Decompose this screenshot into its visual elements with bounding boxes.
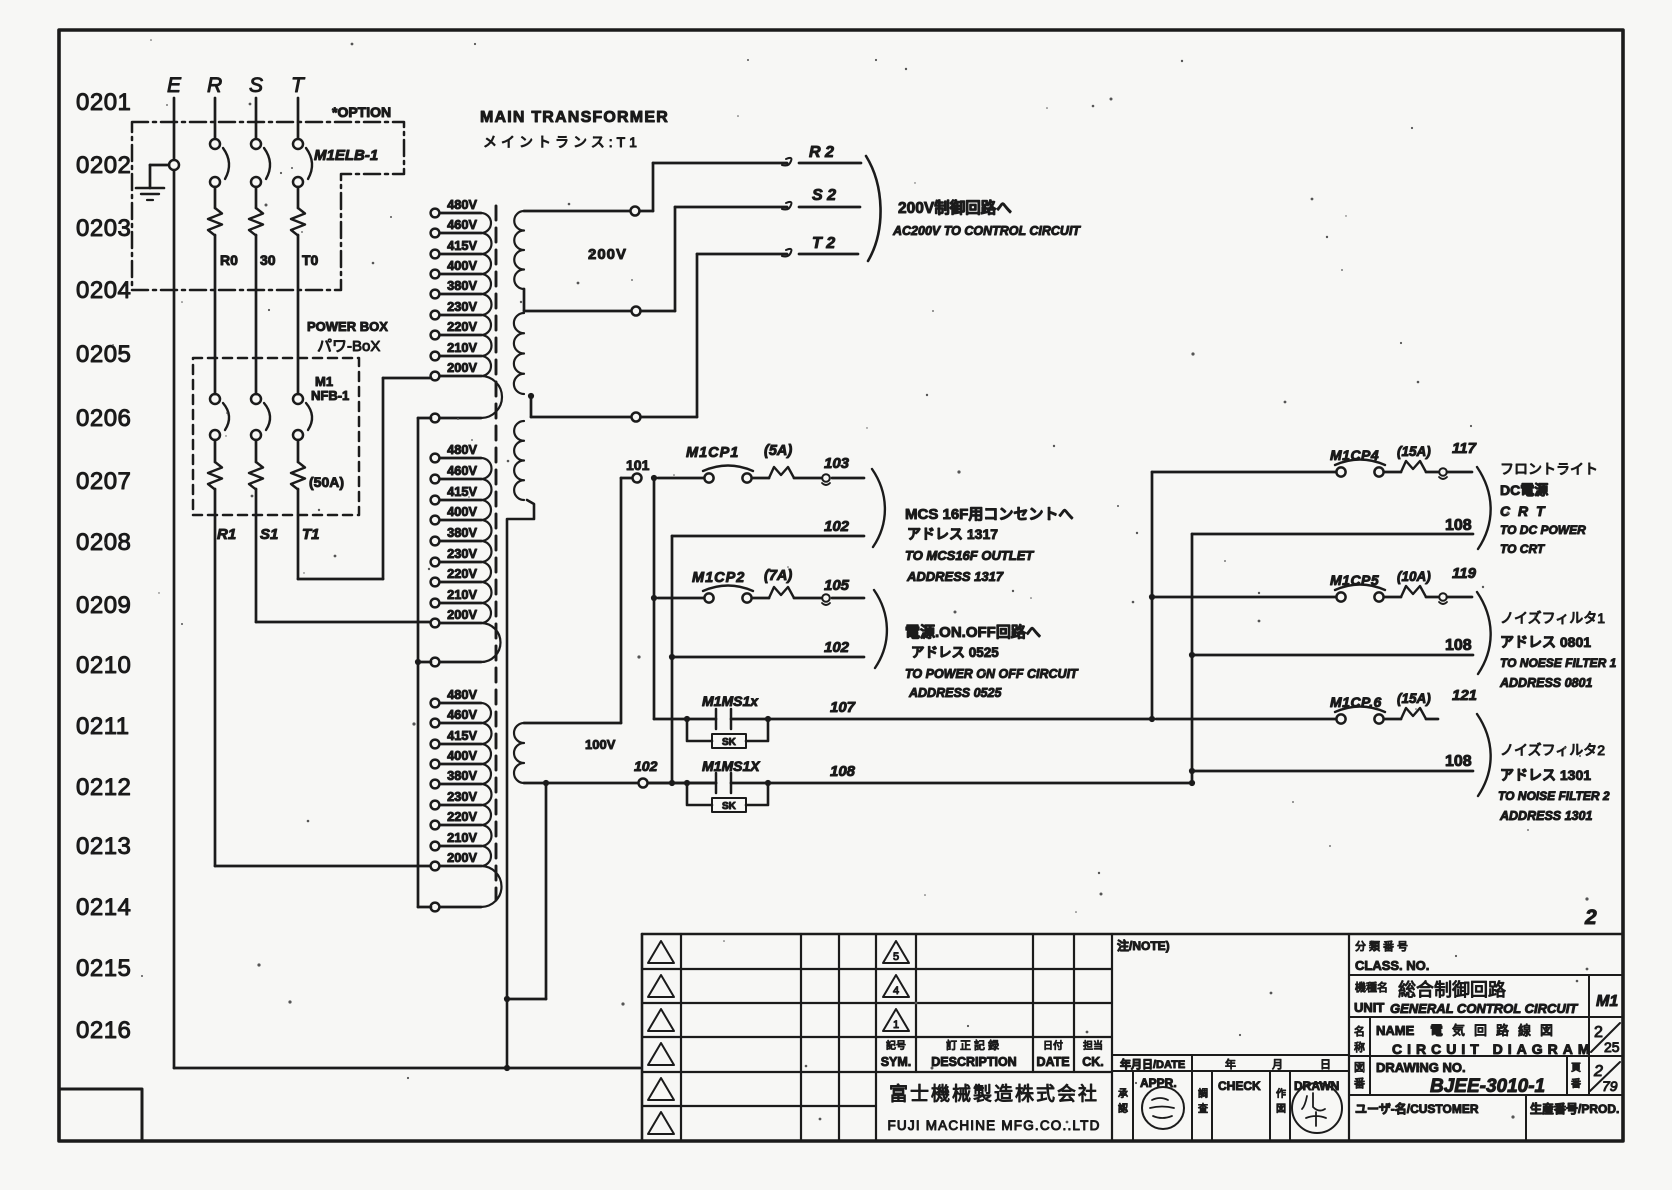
svg-text:CLASS. NO.: CLASS. NO. bbox=[1355, 958, 1429, 973]
svg-text:分類番号: 分類番号 bbox=[1355, 940, 1411, 953]
svg-text:TO POWER ON OFF CIRCUIT: TO POWER ON OFF CIRCUIT bbox=[905, 667, 1079, 681]
svg-text:107: 107 bbox=[830, 699, 856, 716]
svg-text:(50A): (50A) bbox=[309, 474, 344, 490]
svg-text:102: 102 bbox=[634, 758, 658, 774]
svg-text:TO CRT: TO CRT bbox=[1500, 542, 1546, 556]
svg-text:ADDRESS 0525: ADDRESS 0525 bbox=[908, 686, 1002, 700]
svg-text:DESCRIPTION: DESCRIPTION bbox=[931, 1055, 1016, 1069]
svg-text:ノイズフィルタ2: ノイズフィルタ2 bbox=[1500, 742, 1605, 758]
svg-text:BJEE-3010-1: BJEE-3010-1 bbox=[1430, 1076, 1545, 1097]
svg-text:年月日/DATE: 年月日/DATE bbox=[1120, 1057, 1185, 1071]
svg-text:MCS 16F用コンセントへ: MCS 16F用コンセントへ bbox=[905, 506, 1073, 523]
svg-text:2: 2 bbox=[1584, 906, 1597, 929]
svg-text:M1CP.6: M1CP.6 bbox=[1330, 694, 1382, 710]
svg-text:NFB-1: NFB-1 bbox=[311, 388, 349, 403]
svg-text:TO NOISE FILTER 2: TO NOISE FILTER 2 bbox=[1498, 789, 1610, 803]
svg-text:DRAWING NO.: DRAWING NO. bbox=[1376, 1060, 1466, 1075]
svg-text:210V: 210V bbox=[447, 340, 477, 355]
svg-text:1: 1 bbox=[893, 1019, 899, 1031]
svg-text:220V: 220V bbox=[447, 809, 477, 824]
svg-text:メイントランス:T1: メイントランス:T1 bbox=[483, 134, 641, 150]
svg-text:200V: 200V bbox=[447, 360, 477, 375]
svg-text:480V: 480V bbox=[447, 687, 477, 702]
svg-text:アドレス 1301: アドレス 1301 bbox=[1500, 767, 1591, 783]
svg-text:図: 図 bbox=[1354, 1061, 1365, 1074]
svg-text:日付: 日付 bbox=[1043, 1039, 1063, 1052]
svg-text:T: T bbox=[291, 74, 306, 97]
svg-text:(10A): (10A) bbox=[1397, 569, 1431, 584]
svg-text:SYM.: SYM. bbox=[881, 1055, 912, 1069]
svg-text:番: 番 bbox=[1571, 1078, 1581, 1090]
svg-text:月: 月 bbox=[1272, 1059, 1283, 1071]
svg-text:210V: 210V bbox=[447, 587, 477, 602]
svg-text:CK.: CK. bbox=[1082, 1055, 1104, 1069]
svg-text:100V: 100V bbox=[585, 737, 616, 752]
svg-text:2: 2 bbox=[1594, 1024, 1603, 1041]
svg-text:4: 4 bbox=[893, 985, 899, 997]
svg-text:DATE: DATE bbox=[1036, 1055, 1069, 1069]
svg-text:108: 108 bbox=[1445, 753, 1472, 770]
svg-text:CIRCUIT DIAGRAM: CIRCUIT DIAGRAM bbox=[1392, 1041, 1595, 1057]
svg-text:119: 119 bbox=[1452, 565, 1477, 582]
svg-text:T 2: T 2 bbox=[812, 235, 835, 252]
svg-text:査: 査 bbox=[1198, 1102, 1208, 1115]
svg-text:フロントライト: フロントライト bbox=[1500, 461, 1598, 477]
svg-text:電源.ON.OFF回路へ: 電源.ON.OFF回路へ bbox=[905, 623, 1041, 641]
svg-text:R0: R0 bbox=[220, 252, 238, 268]
svg-text:電気回路線図: 電気回路線図 bbox=[1430, 1023, 1562, 1038]
svg-text:0206: 0206 bbox=[76, 405, 131, 432]
svg-text:SK: SK bbox=[722, 801, 737, 812]
svg-text:230V: 230V bbox=[447, 789, 477, 804]
svg-text:0209: 0209 bbox=[76, 592, 131, 619]
svg-text:M1MS1X: M1MS1X bbox=[702, 758, 761, 774]
svg-text:200V制御回路へ: 200V制御回路へ bbox=[898, 198, 1012, 217]
svg-text:230V: 230V bbox=[447, 546, 477, 561]
svg-text:380V: 380V bbox=[447, 525, 477, 540]
svg-text:79: 79 bbox=[1602, 1078, 1618, 1094]
svg-text:200V: 200V bbox=[447, 607, 477, 622]
svg-text:121: 121 bbox=[1452, 687, 1477, 704]
svg-text:R: R bbox=[207, 74, 222, 97]
svg-text:訂正記録: 訂正記録 bbox=[946, 1038, 1002, 1052]
svg-text:注/NOTE): 注/NOTE) bbox=[1117, 938, 1170, 953]
svg-text:機種名: 機種名 bbox=[1355, 980, 1388, 994]
svg-text:108: 108 bbox=[1445, 637, 1472, 654]
svg-text:アドレス 0525: アドレス 0525 bbox=[911, 645, 999, 660]
svg-text:415V: 415V bbox=[447, 238, 477, 253]
svg-text:117: 117 bbox=[1452, 440, 1477, 457]
svg-text:M1: M1 bbox=[1596, 993, 1618, 1010]
svg-text:(15A): (15A) bbox=[1397, 691, 1431, 706]
svg-text:記号: 記号 bbox=[886, 1039, 906, 1052]
svg-text:0204: 0204 bbox=[76, 277, 131, 304]
svg-text:AC200V TO CONTROL CIRCUIT: AC200V TO CONTROL CIRCUIT bbox=[892, 224, 1081, 238]
svg-text:0211: 0211 bbox=[76, 713, 130, 740]
svg-text:ユーザ-名/CUSTOMER: ユーザ-名/CUSTOMER bbox=[1355, 1101, 1479, 1116]
svg-text:FUJI MACHINE MFG.CO..LTD: FUJI MACHINE MFG.CO..LTD bbox=[887, 1118, 1100, 1133]
svg-text:480V: 480V bbox=[447, 197, 477, 212]
svg-text:M1CP5: M1CP5 bbox=[1330, 572, 1379, 588]
svg-text:M1CP4: M1CP4 bbox=[1330, 447, 1379, 463]
svg-text:380V: 380V bbox=[447, 278, 477, 293]
svg-text:108: 108 bbox=[1445, 517, 1472, 534]
svg-text:M1MS1x: M1MS1x bbox=[702, 693, 759, 709]
svg-text:0213: 0213 bbox=[76, 833, 131, 860]
svg-text:0212: 0212 bbox=[76, 774, 131, 801]
svg-text:S: S bbox=[249, 74, 263, 97]
svg-text:0216: 0216 bbox=[76, 1017, 131, 1044]
svg-text:103: 103 bbox=[824, 455, 850, 472]
svg-text:M1CP2: M1CP2 bbox=[692, 570, 745, 586]
svg-text:富士機械製造株式会社: 富士機械製造株式会社 bbox=[889, 1083, 1099, 1105]
svg-text:200V: 200V bbox=[588, 246, 627, 263]
svg-text:日: 日 bbox=[1320, 1059, 1331, 1071]
svg-text:DRAWN: DRAWN bbox=[1294, 1079, 1339, 1093]
svg-text:E: E bbox=[167, 74, 182, 97]
svg-text:(7A): (7A) bbox=[764, 568, 792, 584]
svg-text:調: 調 bbox=[1198, 1087, 1208, 1100]
svg-text:108: 108 bbox=[830, 763, 856, 780]
svg-text:番: 番 bbox=[1354, 1077, 1365, 1090]
svg-text:R 2: R 2 bbox=[809, 144, 834, 161]
svg-text:0201: 0201 bbox=[76, 89, 131, 116]
svg-text:480V: 480V bbox=[447, 442, 477, 457]
svg-text:R1: R1 bbox=[217, 526, 236, 543]
svg-text:CHECK: CHECK bbox=[1218, 1079, 1261, 1093]
svg-text:UNIT: UNIT bbox=[1354, 1000, 1384, 1015]
svg-text:0202: 0202 bbox=[76, 152, 131, 179]
svg-text:415V: 415V bbox=[447, 484, 477, 499]
svg-text:415V: 415V bbox=[447, 728, 477, 743]
svg-text:30: 30 bbox=[260, 252, 276, 268]
svg-text:102: 102 bbox=[824, 518, 850, 535]
svg-text:アドレス 0801: アドレス 0801 bbox=[1500, 634, 1591, 650]
svg-text:0215: 0215 bbox=[76, 955, 131, 982]
svg-text:400V: 400V bbox=[447, 258, 477, 273]
svg-text:生産番号/PROD.: 生産番号/PROD. bbox=[1530, 1101, 1619, 1116]
svg-text:400V: 400V bbox=[447, 748, 477, 763]
svg-text:認: 認 bbox=[1118, 1102, 1128, 1115]
svg-text:0208: 0208 bbox=[76, 529, 131, 556]
svg-text:MAIN TRANSFORMER: MAIN TRANSFORMER bbox=[480, 109, 669, 126]
svg-text:承: 承 bbox=[1118, 1088, 1128, 1100]
svg-text:220V: 220V bbox=[447, 566, 477, 581]
svg-text:210V: 210V bbox=[447, 830, 477, 845]
svg-text:460V: 460V bbox=[447, 217, 477, 232]
svg-text:0205: 0205 bbox=[76, 341, 131, 368]
svg-text:0210: 0210 bbox=[76, 652, 131, 679]
svg-text:25: 25 bbox=[1604, 1039, 1620, 1055]
svg-text:M1: M1 bbox=[315, 374, 333, 389]
svg-text:NAME: NAME bbox=[1376, 1023, 1415, 1038]
svg-text:作: 作 bbox=[1276, 1088, 1286, 1100]
svg-text:101: 101 bbox=[626, 457, 650, 473]
svg-text:380V: 380V bbox=[447, 768, 477, 783]
svg-text:TO MCS16F OUTLET: TO MCS16F OUTLET bbox=[905, 548, 1034, 563]
svg-text:102: 102 bbox=[824, 639, 850, 656]
svg-text:パワ-BoX: パワ-BoX bbox=[317, 338, 380, 355]
svg-text:担当: 担当 bbox=[1083, 1039, 1103, 1052]
svg-text:T1: T1 bbox=[302, 526, 320, 543]
svg-text:105: 105 bbox=[824, 577, 850, 594]
svg-text:400V: 400V bbox=[447, 504, 477, 519]
svg-text:SK: SK bbox=[722, 737, 737, 748]
svg-text:230V: 230V bbox=[447, 299, 477, 314]
svg-text:200V: 200V bbox=[447, 850, 477, 865]
svg-text:称: 称 bbox=[1354, 1040, 1365, 1054]
svg-text:TO DC POWER: TO DC POWER bbox=[1500, 523, 1586, 537]
svg-text:460V: 460V bbox=[447, 463, 477, 478]
svg-text:ADDRESS 0801: ADDRESS 0801 bbox=[1499, 676, 1592, 690]
svg-text:年: 年 bbox=[1225, 1057, 1236, 1071]
svg-text:M1CP1: M1CP1 bbox=[686, 445, 739, 461]
svg-text:ADDRESS 1317: ADDRESS 1317 bbox=[906, 569, 1004, 584]
svg-text:220V: 220V bbox=[447, 319, 477, 334]
svg-text:*OPTION: *OPTION bbox=[332, 104, 391, 120]
svg-text:ADDRESS 1301: ADDRESS 1301 bbox=[1499, 809, 1592, 823]
svg-text:頁: 頁 bbox=[1571, 1062, 1581, 1074]
svg-text:(5A): (5A) bbox=[764, 443, 792, 459]
svg-text:M1ELB-1: M1ELB-1 bbox=[314, 147, 378, 164]
svg-text:460V: 460V bbox=[447, 707, 477, 722]
svg-text:DC電源: DC電源 bbox=[1500, 482, 1548, 498]
svg-text:アドレス 1317: アドレス 1317 bbox=[907, 526, 998, 542]
svg-text:GENERAL CONTROL CIRCUIT: GENERAL CONTROL CIRCUIT bbox=[1390, 1001, 1578, 1016]
svg-text:TO NOESE FILTER 1: TO NOESE FILTER 1 bbox=[1500, 656, 1617, 670]
svg-text:0207: 0207 bbox=[76, 468, 131, 495]
svg-text:(15A): (15A) bbox=[1397, 444, 1431, 459]
svg-text:図: 図 bbox=[1276, 1103, 1286, 1115]
svg-text:総合制御回路: 総合制御回路 bbox=[1398, 980, 1506, 1000]
svg-text:C R T: C R T bbox=[1500, 503, 1547, 519]
svg-text:0203: 0203 bbox=[76, 215, 131, 242]
svg-text:5: 5 bbox=[893, 951, 899, 963]
svg-text:S 2: S 2 bbox=[812, 187, 836, 204]
svg-text:0214: 0214 bbox=[76, 894, 131, 921]
svg-text:POWER BOX: POWER BOX bbox=[307, 319, 388, 334]
svg-text:T0: T0 bbox=[302, 252, 319, 268]
svg-text:名: 名 bbox=[1354, 1024, 1365, 1038]
svg-text:ノイズフィルタ1: ノイズフィルタ1 bbox=[1500, 610, 1605, 626]
svg-text:S1: S1 bbox=[260, 526, 278, 543]
